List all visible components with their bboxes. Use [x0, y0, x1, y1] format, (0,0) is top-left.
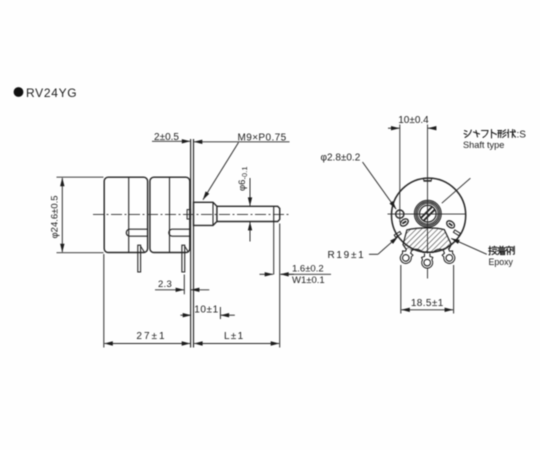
svg-text:φ6-0.1: φ6-0.1 — [237, 166, 249, 191]
svg-text:2±0.5: 2±0.5 — [154, 132, 179, 143]
svg-text:Epoxy: Epoxy — [489, 257, 514, 267]
svg-text:L±1: L±1 — [224, 331, 245, 342]
svg-text:φ24.6±0.5: φ24.6±0.5 — [50, 195, 61, 238]
svg-text:W1±0.1: W1±0.1 — [292, 275, 325, 286]
svg-text::S: :S — [517, 130, 527, 141]
svg-text:R19±1: R19±1 — [328, 250, 366, 261]
svg-text:10±1: 10±1 — [194, 305, 219, 316]
svg-text:M9×P0.75: M9×P0.75 — [238, 133, 287, 144]
svg-text:10±0.4: 10±0.4 — [398, 115, 429, 126]
svg-text:1.6±0.2: 1.6±0.2 — [292, 263, 324, 274]
svg-text:φ2.8±0.2: φ2.8±0.2 — [321, 153, 361, 164]
svg-text:18.5±1: 18.5±1 — [411, 298, 444, 309]
svg-text:27±1: 27±1 — [136, 331, 166, 342]
svg-text:2.3: 2.3 — [158, 279, 172, 290]
svg-text:RV24YG: RV24YG — [26, 86, 77, 100]
svg-text:Shaft type: Shaft type — [463, 140, 504, 150]
